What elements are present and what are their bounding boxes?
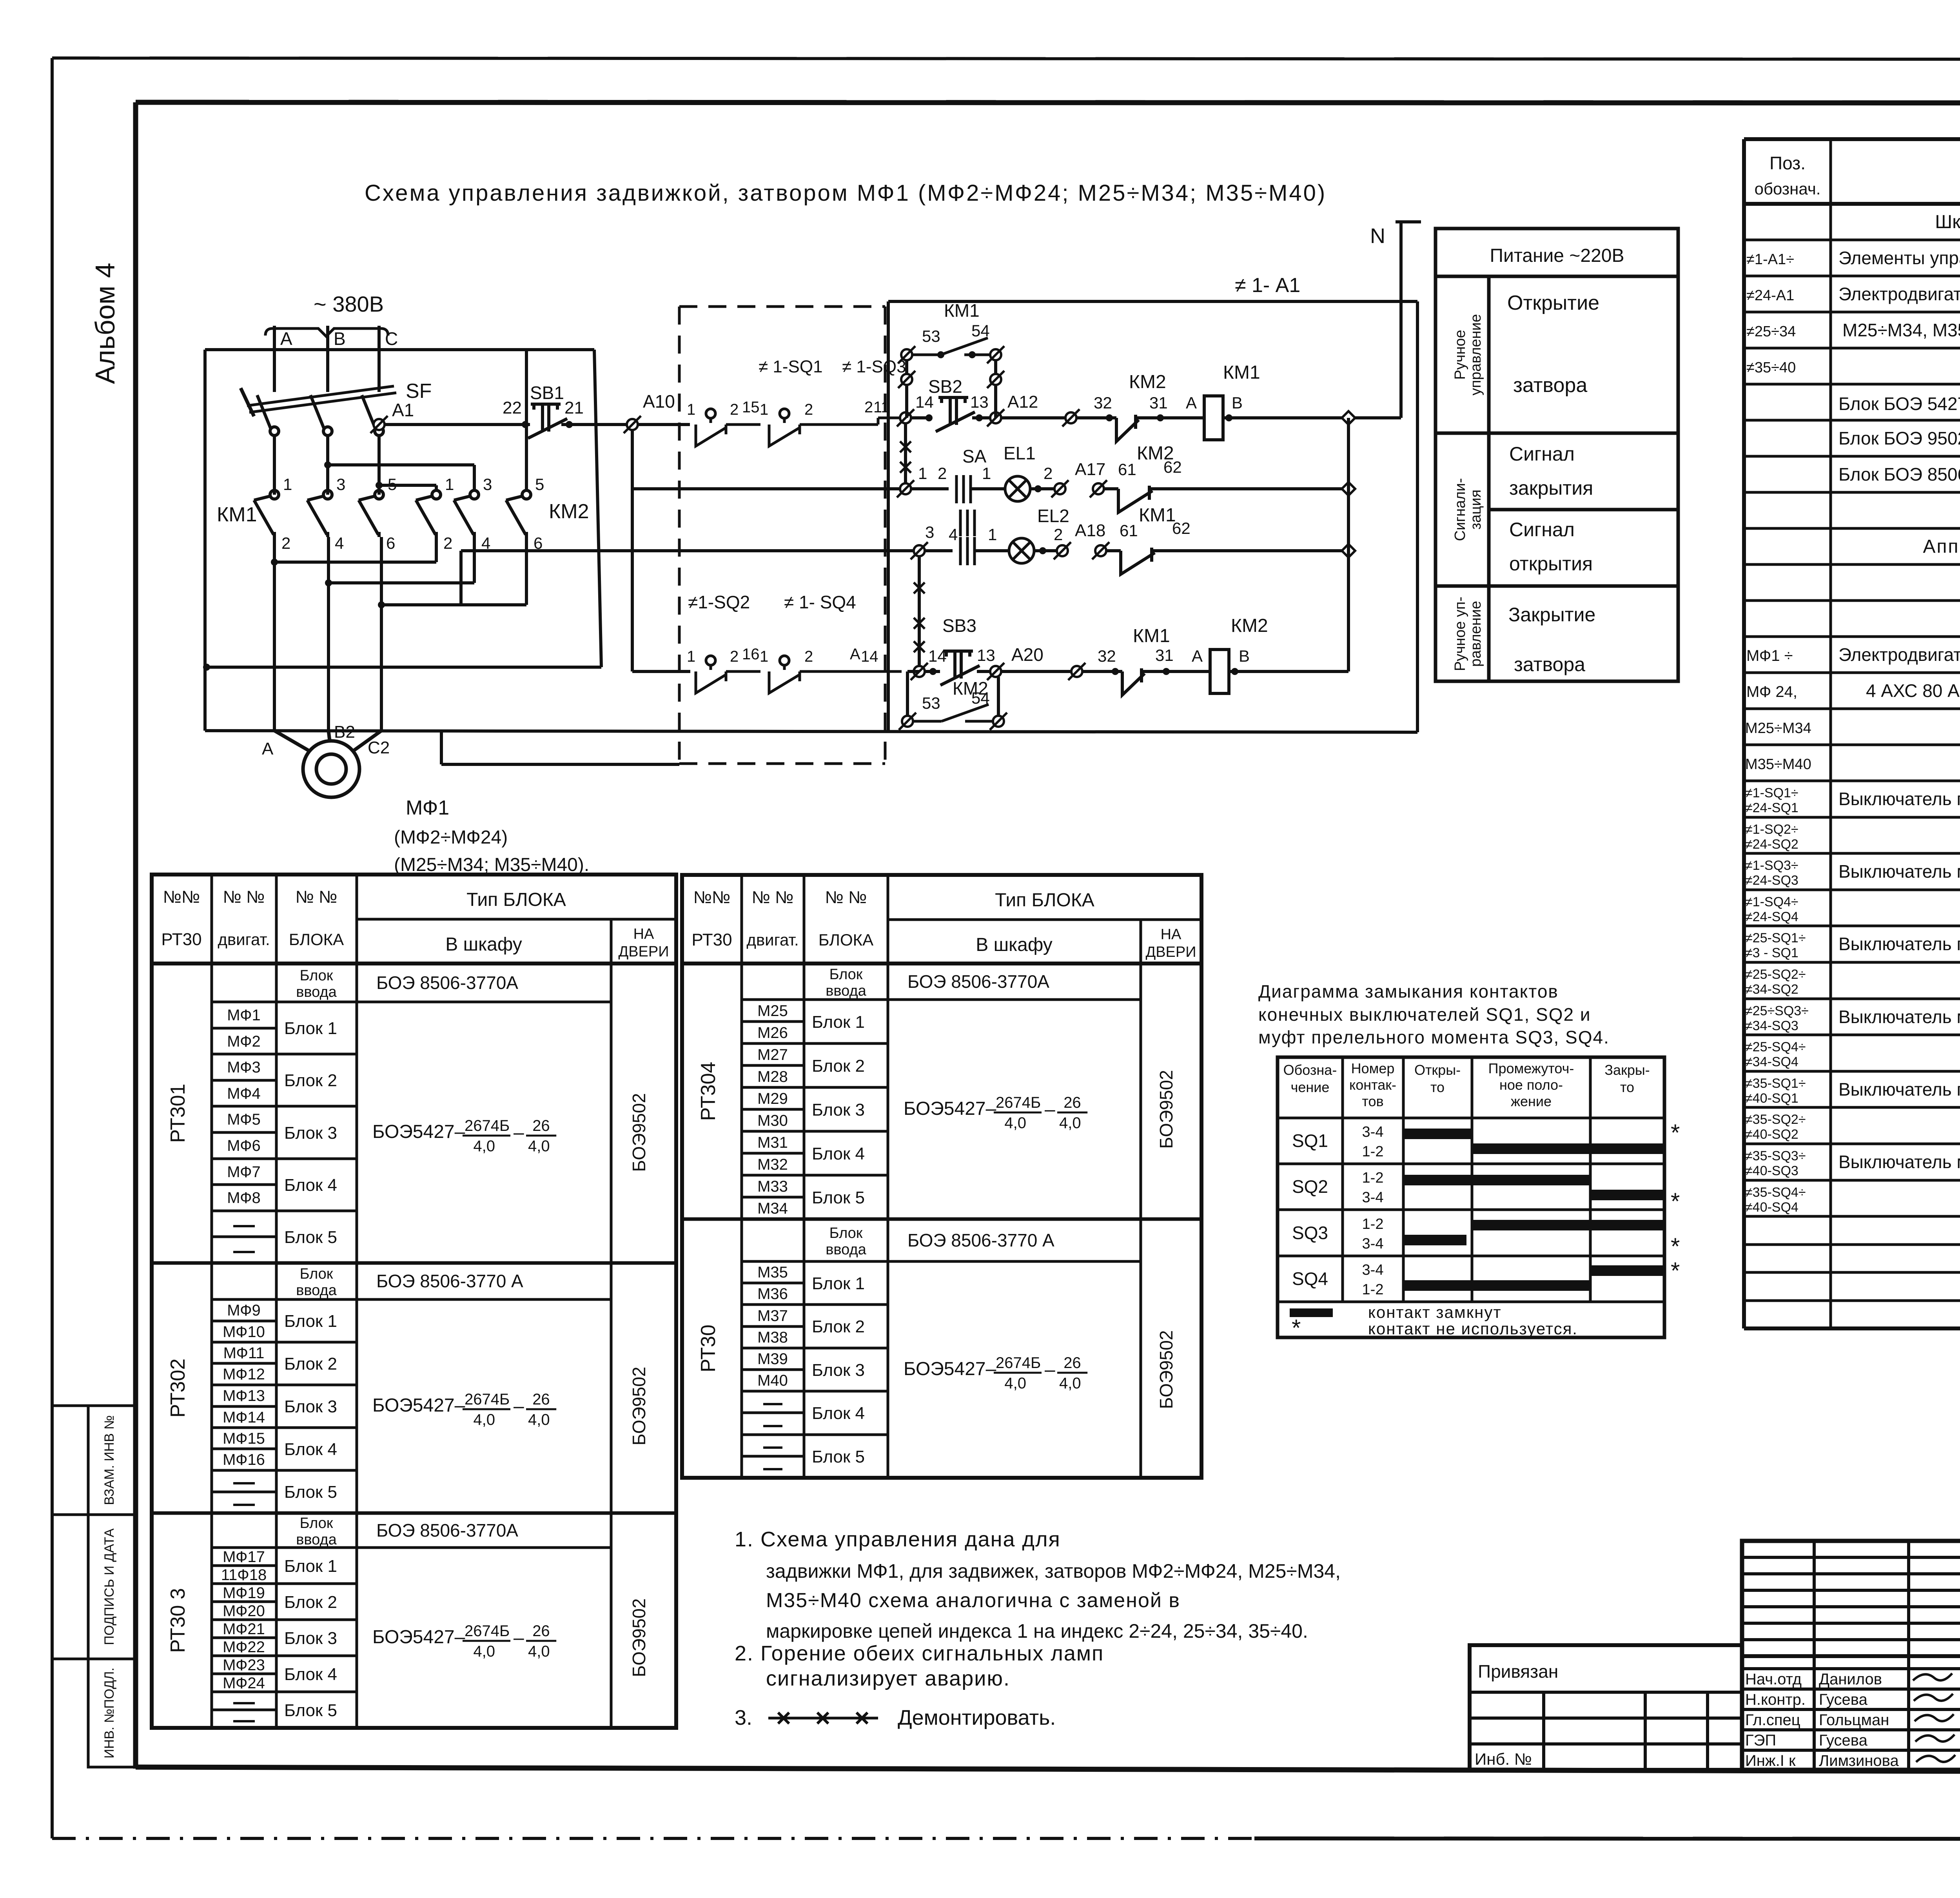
svg-text:Выключатель муфтовый: Выключатель муфтовый (1838, 861, 1960, 882)
svg-text:МФ2: МФ2 (227, 1033, 261, 1050)
svg-text:МФ23: МФ23 (223, 1657, 265, 1674)
svg-text:11Ф18: 11Ф18 (221, 1566, 267, 1584)
svg-text:РТ301: РТ301 (167, 1084, 189, 1143)
svg-text:Сигнал: Сигнал (1509, 519, 1575, 541)
svg-text:Гольцман: Гольцман (1819, 1711, 1889, 1729)
svg-text:МФ6: МФ6 (227, 1137, 261, 1154)
svg-text:Закрытие: Закрытие (1508, 604, 1595, 626)
svg-text:≠ 1- А1: ≠ 1- А1 (1235, 274, 1300, 297)
dismantle symbol (768, 1713, 878, 1724)
svg-text:БОЭ5427–: БОЭ5427– (372, 1627, 465, 1648)
push button SB3 (940, 651, 980, 685)
svg-text:Данилов: Данилов (1819, 1671, 1882, 1688)
node 3 row3 (911, 542, 928, 559)
svg-text:М29: М29 (757, 1090, 788, 1107)
svg-text:Тип БЛОКА: Тип БЛОКА (466, 889, 566, 910)
svg-text:А20: А20 (1011, 644, 1044, 665)
svg-text:двигат.: двигат. (218, 930, 270, 949)
svg-text:≠ 1-SQ3: ≠ 1-SQ3 (842, 357, 906, 376)
legend bar (1290, 1308, 1333, 1317)
svg-text:53: 53 (922, 327, 940, 345)
svg-text:2: 2 (730, 648, 739, 665)
wires SF to KM contacts (273, 435, 276, 495)
svg-text:1. Схема управления дана дл: 1. Схема управления дана для (735, 1528, 1061, 1551)
svg-text:2674Б: 2674Б (465, 1391, 510, 1408)
svg-text:4,0: 4,0 (473, 1411, 495, 1428)
svg-text:Альбом 4: Альбом 4 (90, 263, 120, 384)
svg-text:≠3 - SQ1: ≠3 - SQ1 (1745, 945, 1798, 960)
svg-text:МФ21: МФ21 (223, 1620, 265, 1638)
svg-text:РТ30 3: РТ30 3 (167, 1588, 189, 1653)
svg-text:ДВЕРИ: ДВЕРИ (1145, 944, 1196, 960)
phase stub B (326, 326, 329, 392)
push button SB2 (936, 397, 975, 432)
svg-text:РТ30: РТ30 (691, 930, 732, 949)
svg-text:МФ9: МФ9 (227, 1302, 261, 1319)
svg-text:4,0: 4,0 (528, 1138, 550, 1155)
svg-text:SF: SF (406, 380, 432, 403)
svg-text:2: 2 (804, 401, 813, 418)
svg-text:№ №: № № (296, 887, 338, 907)
svg-text:1: 1 (445, 475, 454, 494)
svg-text:2: 2 (730, 401, 739, 418)
svg-text:Гусева: Гусева (1819, 1732, 1868, 1749)
svg-text:–: – (1045, 1099, 1055, 1120)
outer border bottom (dash-dot left, solid right) (52, 1837, 1254, 1840)
wire A1 to SB1 (384, 423, 530, 426)
svg-text:Гусева: Гусева (1819, 1691, 1868, 1708)
svg-text:≠1-SQ2÷: ≠1-SQ2÷ (1745, 822, 1798, 837)
block table 1 (152, 875, 676, 1728)
svg-text:МФ22: МФ22 (223, 1639, 265, 1656)
svg-text:≠25-SQ2÷: ≠25-SQ2÷ (1745, 967, 1806, 982)
power box right wire (594, 350, 601, 667)
svg-text:2: 2 (804, 648, 813, 665)
svg-text:Блок 3: Блок 3 (812, 1361, 865, 1380)
svg-text:Ручное: Ручное (1452, 330, 1468, 379)
svg-text:М25: М25 (757, 1002, 788, 1020)
svg-text:МФ1: МФ1 (406, 797, 449, 819)
svg-text:~ 380В: ~ 380В (314, 292, 384, 316)
svg-text:МФ12: МФ12 (223, 1366, 265, 1383)
svg-text:БОЭ9502: БОЭ9502 (629, 1093, 649, 1172)
svg-text:26: 26 (532, 1391, 550, 1408)
svg-text:равление: равление (1468, 601, 1484, 667)
svg-text:1: 1 (687, 401, 695, 418)
svg-text:≠1-SQ3÷: ≠1-SQ3÷ (1745, 858, 1798, 873)
svg-text:М40: М40 (757, 1372, 788, 1389)
svg-text:Блок 2: Блок 2 (812, 1317, 865, 1336)
svg-text:≠40-SQ4: ≠40-SQ4 (1745, 1200, 1798, 1215)
svg-text:26: 26 (532, 1117, 550, 1134)
svg-text:Тип БЛОКА: Тип БЛОКА (995, 890, 1094, 911)
svg-text:БОЭ5427–: БОЭ5427– (372, 1121, 465, 1142)
svg-text:МФ15: МФ15 (223, 1430, 265, 1447)
torque switch SQ3 (769, 409, 800, 446)
svg-text:В шкафу: В шкафу (976, 934, 1053, 955)
svg-text:М25÷М34: М25÷М34 (1745, 720, 1811, 737)
svg-text:Выключатель путевой: Выключатель путевой (1838, 789, 1960, 809)
svg-text:≠1-SQ1÷: ≠1-SQ1÷ (1745, 786, 1798, 800)
supply legend table (1436, 229, 1678, 681)
svg-text:Номер: Номер (1351, 1060, 1395, 1076)
svg-text:А12: А12 (1007, 392, 1038, 412)
svg-text:БОЭ 8506-3770 А: БОЭ 8506-3770 А (376, 1271, 523, 1291)
svg-text:2: 2 (1044, 464, 1053, 483)
svg-text:≠24-SQ2: ≠24-SQ2 (1745, 837, 1798, 852)
svg-text:В: В (1232, 394, 1243, 412)
svg-text:≠24-SQ3: ≠24-SQ3 (1745, 873, 1798, 888)
svg-text:4,0: 4,0 (473, 1138, 495, 1155)
svg-text:2: 2 (1054, 525, 1063, 544)
svg-text:ввода: ввода (296, 1531, 337, 1548)
svg-text:≠1-SQ2: ≠1-SQ2 (688, 592, 750, 612)
svg-text:МФ1: МФ1 (227, 1007, 261, 1024)
svg-text:маркировке цепей индекса 1 н: маркировке цепей индекса 1 на индекс 2÷2… (766, 1620, 1308, 1642)
svg-text:В шкафу: В шкафу (445, 934, 522, 955)
svg-text:≠25÷SQ3÷: ≠25÷SQ3÷ (1745, 1003, 1809, 1018)
svg-text:4,0: 4,0 (1004, 1114, 1026, 1132)
svg-text:А18: А18 (1075, 521, 1105, 540)
svg-text:ввода: ввода (296, 1282, 337, 1299)
svg-text:≠35-SQ3÷: ≠35-SQ3÷ (1745, 1149, 1806, 1163)
switch SA (upper gang) (956, 475, 971, 503)
svg-text:МФ13: МФ13 (223, 1387, 265, 1404)
svg-text:EL2: EL2 (1037, 506, 1069, 526)
riser row3 to row4 with dismantle marks (918, 556, 921, 666)
svg-text:Гл.спец: Гл.спец (1745, 1711, 1800, 1729)
power box top bus wire (205, 348, 594, 351)
svg-text:конечных выключателей SQ1, S: конечных выключателей SQ1, SQ2 и (1258, 1004, 1591, 1025)
svg-text:контакт не используется.: контакт не используется. (1368, 1319, 1578, 1338)
svg-text:SA: SA (962, 446, 987, 466)
svg-text:Блок 5: Блок 5 (812, 1188, 865, 1207)
svg-text:БЛОКА: БЛОКА (818, 931, 873, 949)
neutral N riser (1399, 222, 1403, 418)
bar SQ1 3-4 open (1403, 1129, 1472, 1139)
svg-text:Открытие: Открытие (1507, 292, 1599, 314)
svg-text:1: 1 (988, 525, 997, 544)
svg-text:Блок 2: Блок 2 (284, 1593, 337, 1612)
svg-text:13: 13 (970, 393, 989, 411)
svg-text:≠34-SQ2: ≠34-SQ2 (1745, 982, 1798, 997)
svg-text:Блок 3: Блок 3 (812, 1100, 865, 1120)
svg-text:РТ302: РТ302 (167, 1359, 189, 1418)
svg-text:Блок 3: Блок 3 (284, 1397, 337, 1416)
svg-text:В2: В2 (334, 722, 355, 742)
svg-text:МФ14: МФ14 (223, 1409, 265, 1426)
svg-text:≠25-SQ1÷: ≠25-SQ1÷ (1745, 931, 1806, 945)
svg-text:МФ8: МФ8 (227, 1189, 261, 1207)
svg-text:1-2: 1-2 (1362, 1281, 1384, 1298)
svg-text:чение: чение (1291, 1079, 1330, 1095)
svg-text:SQ3: SQ3 (1292, 1223, 1328, 1243)
node 1 row2 (897, 480, 914, 497)
svg-text:Выключатель путевой: Выключатель путевой (1838, 934, 1960, 954)
svg-text:Блок: Блок (829, 1225, 863, 1241)
svg-text:то: то (1620, 1079, 1634, 1095)
svg-text:КМ2: КМ2 (1231, 615, 1268, 636)
svg-text:Электродвигателями: МФ1÷МФ24: Электродвигателями: МФ1÷МФ24 (1838, 284, 1960, 304)
contact KM1 NC 61-62 (1121, 548, 1174, 574)
svg-text:сигнализирует аварию.: сигнализирует аварию. (766, 1667, 1010, 1690)
svg-text:МФ4: МФ4 (227, 1085, 261, 1102)
svg-text:–: – (514, 1122, 524, 1143)
svg-text:БОЭ9502: БОЭ9502 (1156, 1070, 1176, 1149)
bar SQ4 1-2 (1403, 1280, 1590, 1291)
svg-text:БОЭ 8506-3770А: БОЭ 8506-3770А (376, 1520, 518, 1541)
svg-text:МФ16: МФ16 (223, 1451, 265, 1468)
contact KM2 NC 31-32 (1116, 415, 1158, 441)
svg-text:26: 26 (1063, 1354, 1081, 1372)
svg-text:БОЭ5427–: БОЭ5427– (904, 1359, 996, 1379)
svg-text:А: А (280, 328, 292, 349)
svg-text:открытия: открытия (1509, 553, 1593, 575)
svg-text:3.: 3. (735, 1706, 752, 1729)
svg-text:3: 3 (483, 475, 492, 494)
svg-text:61: 61 (1118, 460, 1136, 479)
svg-text:М26: М26 (757, 1024, 788, 1042)
svg-text:М33: М33 (757, 1178, 788, 1195)
row3 feed wire from power section (461, 549, 914, 552)
svg-text:управление: управление (1468, 314, 1484, 396)
svg-text:МФ24: МФ24 (223, 1675, 265, 1692)
svg-text:Блок 1: Блок 1 (284, 1557, 337, 1576)
svg-text:закрытия: закрытия (1509, 477, 1593, 499)
svg-text:53: 53 (922, 694, 940, 712)
jog to row1 (877, 418, 880, 425)
svg-text:А: А (1192, 647, 1203, 665)
svg-text:контак-: контак- (1349, 1077, 1396, 1093)
svg-text:МФ7: МФ7 (227, 1163, 261, 1181)
svg-text:≠ 1- SQ4: ≠ 1- SQ4 (784, 592, 856, 612)
svg-text:А1: А1 (392, 400, 414, 420)
svg-text:В: В (334, 328, 346, 349)
wire A10 into limit switch box (638, 423, 690, 426)
svg-text:затвора: затвора (1514, 653, 1585, 675)
svg-text:Блок 5: Блок 5 (284, 1228, 337, 1247)
svg-text:МФ 24,: МФ 24, (1746, 683, 1797, 700)
phase stub C (377, 326, 381, 392)
svg-text:Инж.I к: Инж.I к (1745, 1752, 1796, 1769)
svg-text:Блок 4: Блок 4 (812, 1144, 865, 1163)
block table 2 (682, 875, 1201, 1478)
svg-text:МФ11: МФ11 (223, 1345, 265, 1362)
svg-text:Ручное уп-: Ручное уп- (1452, 597, 1468, 671)
lower horizontal wire inside power box (207, 666, 601, 669)
svg-text:3-4: 3-4 (1362, 1236, 1384, 1252)
svg-text:Блок 1: Блок 1 (284, 1312, 337, 1331)
svg-text:М35: М35 (757, 1264, 788, 1281)
svg-text:Откры-: Откры- (1414, 1062, 1461, 1078)
bar SQ3 1-2 (1472, 1220, 1664, 1230)
power box left wire (203, 350, 207, 731)
SA mechanical link (960, 510, 975, 536)
svg-text:Поз.: Поз. (1769, 153, 1806, 173)
svg-text:≠35-SQ4÷: ≠35-SQ4÷ (1745, 1185, 1806, 1200)
svg-text:≠24-SQ4: ≠24-SQ4 (1745, 909, 1798, 924)
svg-text:Выключатель муфтовый: Выключатель муфтовый (1838, 1007, 1960, 1027)
wire SB1 to A10 (561, 423, 626, 426)
svg-text:*: * (1671, 1188, 1680, 1214)
coil KM1 (1204, 396, 1223, 440)
svg-text:КМ1: КМ1 (1223, 362, 1260, 383)
svg-text:(МФ2÷МФ24): (МФ2÷МФ24) (394, 827, 508, 848)
dashed enclosure of gate unit (679, 307, 885, 764)
svg-text:БОЭ 8506-3770А: БОЭ 8506-3770А (907, 971, 1049, 992)
svg-text:4,0: 4,0 (1059, 1375, 1081, 1392)
svg-text:*: * (1671, 1257, 1680, 1284)
svg-text:≠40-SQ2: ≠40-SQ2 (1745, 1127, 1798, 1142)
svg-text:Блок 3: Блок 3 (284, 1629, 337, 1648)
svg-text:21: 21 (564, 398, 584, 417)
svg-text:3-4: 3-4 (1362, 1262, 1384, 1278)
svg-text:≠25÷34: ≠25÷34 (1746, 323, 1796, 340)
svg-text:1: 1 (283, 475, 292, 494)
KM1 holding contact 53-54 branch (905, 355, 908, 418)
svg-text:Элементы управления: Элементы управления (1838, 248, 1960, 268)
svg-text:РТ30: РТ30 (697, 1325, 720, 1372)
svg-text:МФ19: МФ19 (223, 1584, 265, 1602)
svg-text:Блок 2: Блок 2 (284, 1354, 337, 1374)
svg-text:≠24-SQ1: ≠24-SQ1 (1745, 800, 1798, 815)
svg-text:≠40-SQ1: ≠40-SQ1 (1745, 1091, 1798, 1106)
svg-text:15: 15 (742, 399, 760, 416)
svg-text:Блок 1: Блок 1 (284, 1019, 337, 1038)
svg-text:КМ1: КМ1 (1133, 626, 1170, 646)
svg-text:№ №: № № (223, 887, 265, 907)
svg-text:обознач.: обознач. (1755, 180, 1821, 198)
svg-text:№ №: № № (825, 888, 867, 907)
svg-text:SQ4: SQ4 (1292, 1268, 1328, 1289)
svg-text:≠ 1-SQ1: ≠ 1-SQ1 (759, 357, 823, 376)
svg-text:№ №: № № (752, 888, 794, 907)
svg-text:М32: М32 (757, 1156, 788, 1173)
svg-text:то: то (1430, 1079, 1445, 1095)
svg-text:Блок БОЭ 8506-3770А: Блок БОЭ 8506-3770А (1838, 464, 1960, 484)
svg-text:тов: тов (1362, 1093, 1383, 1109)
svg-text:1-2: 1-2 (1362, 1216, 1384, 1232)
svg-text:ввода: ввода (826, 1241, 866, 1258)
svg-text:ввода: ввода (826, 983, 866, 999)
svg-text:–: – (514, 1628, 524, 1648)
svg-text:КМ1: КМ1 (944, 300, 980, 321)
svg-text:М30: М30 (757, 1112, 788, 1129)
main title block (1742, 1541, 1960, 1770)
svg-text:N: N (1370, 224, 1385, 248)
svg-text:№№: №№ (693, 888, 730, 907)
svg-text:Блок 2: Блок 2 (812, 1056, 865, 1076)
svg-text:(М25÷М34; М35÷М40).: (М25÷М34; М35÷М40). (394, 855, 589, 875)
lamp EL2 (1009, 538, 1034, 563)
svg-text:1: 1 (687, 648, 695, 665)
svg-text:2674Б: 2674Б (465, 1622, 510, 1640)
svg-text:≠40-SQ3: ≠40-SQ3 (1745, 1163, 1798, 1178)
svg-text:М35÷М40: М35÷М40 (1745, 756, 1811, 773)
svg-text:4: 4 (949, 525, 958, 544)
phase stub A (273, 326, 276, 392)
svg-text:БОЭ 8506-3770А: БОЭ 8506-3770А (376, 973, 518, 993)
svg-text:КМ1: КМ1 (1139, 505, 1176, 526)
svg-text:62: 62 (1172, 519, 1191, 537)
lower bridge wire 2-2 (274, 561, 436, 564)
node A1 (370, 416, 388, 433)
svg-text:М38: М38 (757, 1329, 788, 1346)
svg-text:22: 22 (503, 398, 522, 417)
svg-text:№№: №№ (163, 887, 200, 907)
svg-text:SB3: SB3 (942, 615, 976, 636)
svg-text:М31: М31 (757, 1134, 788, 1151)
svg-text:Блок 3: Блок 3 (284, 1123, 337, 1143)
svg-text:1: 1 (918, 464, 927, 483)
svg-text:Блок 4: Блок 4 (284, 1176, 337, 1195)
svg-text:МФ1 ÷: МФ1 ÷ (1746, 647, 1793, 664)
svg-text:КМ2: КМ2 (953, 678, 988, 699)
svg-text:2674Б: 2674Б (996, 1094, 1041, 1111)
svg-text:≠25-SQ4÷: ≠25-SQ4÷ (1745, 1040, 1806, 1054)
svg-text:1-2: 1-2 (1362, 1170, 1384, 1186)
svg-text:затвора: затвора (1513, 374, 1587, 397)
SF tie bar (247, 386, 394, 406)
svg-text:МФ17: МФ17 (223, 1548, 265, 1566)
svg-text:Диаграмма замыкания контакто: Диаграмма замыкания контактов (1258, 981, 1559, 1002)
svg-text:26: 26 (532, 1622, 550, 1640)
svg-text:Н.контр.: Н.контр. (1745, 1691, 1806, 1708)
svg-text:4: 4 (335, 534, 344, 552)
KM2-5 feed from top bus (525, 350, 528, 490)
svg-text:Нач.отд: Нач.отд (1745, 1671, 1802, 1688)
right bus diamond row1 (1342, 411, 1355, 425)
svg-text:54: 54 (971, 321, 990, 340)
svg-text:МФ10: МФ10 (223, 1323, 265, 1341)
svg-text:2: 2 (281, 534, 290, 552)
svg-text:А10: А10 (643, 391, 675, 412)
svg-text:–: – (1045, 1359, 1055, 1380)
svg-text:Блок 1: Блок 1 (812, 1013, 865, 1032)
svg-text:1: 1 (760, 648, 768, 665)
svg-text:М28: М28 (757, 1068, 788, 1085)
svg-text:1: 1 (982, 464, 991, 483)
svg-text:4,0: 4,0 (528, 1643, 550, 1660)
svg-text:КМ2: КМ2 (549, 500, 589, 523)
coil KM2 (1210, 650, 1229, 693)
svg-text:Электродвигатель ~380В: Электродвигатель ~380В (1838, 644, 1960, 665)
svg-text:ИНВ. №ПОДЛ.: ИНВ. №ПОДЛ. (102, 1668, 117, 1758)
svg-text:31: 31 (1149, 394, 1168, 412)
svg-text:М37: М37 (757, 1307, 788, 1325)
svg-text:3: 3 (336, 475, 345, 494)
svg-text:≠35-SQ2÷: ≠35-SQ2÷ (1745, 1112, 1806, 1127)
node 2-11 (897, 409, 914, 426)
motor M F1 (274, 731, 381, 797)
svg-text:С: С (385, 328, 398, 349)
title block attachment (left) (1470, 1645, 1742, 1770)
svg-text:≠1-А1÷: ≠1-А1÷ (1746, 251, 1794, 268)
svg-text:М35÷М40 схема аналогична с: М35÷М40 схема аналогична с заменой в (766, 1589, 1180, 1612)
svg-text:Сигнали-: Сигнали- (1452, 478, 1468, 541)
svg-text:6: 6 (386, 534, 395, 552)
svg-text:контакт замкнут: контакт замкнут (1368, 1303, 1502, 1321)
phase bridge wire C to KM2-1 (379, 484, 436, 487)
control box outline (888, 301, 1417, 732)
svg-text:32: 32 (1098, 647, 1116, 665)
svg-text:жение: жение (1511, 1093, 1552, 1109)
svg-text:Блок: Блок (300, 1266, 333, 1282)
svg-text:БОЭ5427–: БОЭ5427– (904, 1098, 996, 1119)
svg-text:А: А (850, 646, 860, 663)
svg-text:НА: НА (633, 926, 654, 942)
bar SQ4 3-4 (1590, 1265, 1664, 1276)
